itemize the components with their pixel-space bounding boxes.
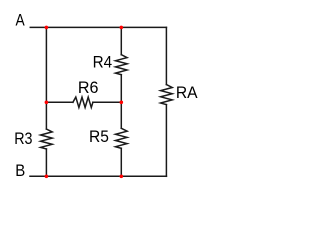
- resistor R4: [116, 55, 128, 75]
- node junction mid-left: [45, 101, 49, 105]
- wire middle vertical mid: [120, 75, 122, 129]
- wire right vertical lower: [165, 105, 167, 177]
- svg-text:R6: R6: [78, 78, 99, 97]
- resistor R3: [41, 129, 53, 149]
- resistor R6: [73, 97, 93, 107]
- node junction top-left: [45, 26, 49, 30]
- wire middle vertical top: [120, 27, 122, 54]
- svg-text:R5: R5: [89, 127, 109, 146]
- node junction bottom-mid: [120, 175, 124, 179]
- wire bottom B rail: [30, 175, 166, 177]
- node junction bottom-left: [45, 175, 49, 179]
- wire middle vertical bottom: [120, 148, 122, 176]
- wire middle horizontal left: [46, 101, 73, 103]
- wire top A rail: [30, 26, 166, 28]
- svg-text:A: A: [16, 10, 26, 29]
- wire left vertical lower: [45, 149, 47, 176]
- resistor RA: [161, 85, 173, 105]
- wire left vertical upper: [45, 27, 47, 129]
- node junction top-mid: [120, 26, 124, 30]
- svg-text:B: B: [15, 161, 25, 180]
- wire middle horizontal right: [93, 101, 121, 103]
- wire right vertical upper: [165, 27, 167, 84]
- svg-text:R4: R4: [93, 53, 113, 72]
- svg-text:RA: RA: [176, 83, 198, 102]
- node junction mid-mid: [120, 101, 124, 105]
- svg-text:R3: R3: [14, 129, 32, 148]
- resistor R5: [116, 128, 128, 148]
